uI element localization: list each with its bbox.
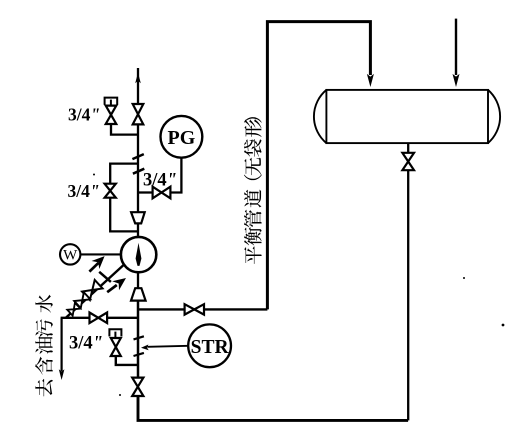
instrument PG circle (161, 116, 203, 158)
valve V2 (3/4 in vent valve) (106, 106, 117, 124)
wire: drain diagonal from pump (66, 265, 124, 318)
wire: W to pump (80, 253, 121, 255)
valve D2 on drain (74, 292, 90, 308)
wire: balance pipe up and over to vessel (267, 22, 370, 310)
label: 去含油污水 (vertical) (35, 295, 53, 397)
speck (93, 174, 95, 176)
strainer tick upper (134, 336, 144, 339)
wire: main vertical pipe top segment (137, 68, 139, 104)
crossing tick on drain line (99, 272, 111, 282)
valve V4 (3/4 in gauge valve) (153, 187, 171, 199)
strainer tick lower (134, 353, 144, 356)
valve V1 on main pipe (gate valve) (133, 104, 144, 124)
wire: main discharge pipe down (137, 301, 140, 378)
svg-text:3/4": 3/4" (143, 171, 177, 191)
wire: V4 to main pipe (138, 191, 153, 193)
wire: pipe reducer to pump (137, 223, 139, 237)
union tick lower on main pipe (133, 169, 144, 174)
speck (502, 324, 505, 327)
vessel left head (314, 90, 326, 143)
wire: PG down to valve V4 (170, 158, 181, 193)
union tick upper on main pipe (132, 154, 143, 159)
wire: main pipe to V3 branch upper (110, 164, 138, 184)
wire: main pipe between V1 and reducer (137, 124, 139, 212)
pump impeller arrow (136, 243, 142, 266)
wire: vessel outlet (407, 143, 409, 153)
svg-text:3/4": 3/4" (68, 181, 100, 201)
svg-text:3/4": 3/4" (69, 334, 103, 354)
flow arrow B (solid, NE) (107, 285, 117, 292)
expander below pump (131, 288, 146, 300)
valve V6 on balance branch (185, 304, 204, 314)
cap fitting above valve V9 (109, 329, 121, 336)
wire: V3 down and to main pipe (110, 198, 138, 232)
svg-text:W: W (63, 248, 78, 264)
vessel right head (488, 90, 500, 143)
flow arrow A (solid, NE) (89, 263, 98, 272)
valve V9 (3/4 in drain valve) (111, 338, 121, 356)
svg-text:PG: PG (168, 127, 196, 149)
speck (119, 394, 121, 396)
wire: bottom pipe with corner to right (138, 396, 408, 420)
valve V5 on oily water pipe (90, 313, 108, 324)
outlet arrow down (59, 369, 65, 380)
leader from STR to strainer (148, 346, 189, 347)
wire: outlet pipe down to bottom header (407, 170, 409, 420)
arrow into vessel (balance line) (367, 74, 374, 87)
valve V8 on vessel outlet (402, 153, 414, 170)
cap fitting above valve V2 (105, 98, 118, 105)
instrument STR circle (188, 324, 231, 367)
svg-text:3/4": 3/4" (68, 105, 100, 125)
valve V3 (3/4 in) (105, 184, 116, 198)
wire: second inlet line (455, 19, 457, 75)
arrow into vessel (inlet) (453, 74, 460, 87)
svg-text:STR: STR (191, 337, 230, 358)
wire: pump to expander (137, 272, 139, 288)
vessel shell (326, 90, 488, 143)
instrument W circle (60, 244, 80, 264)
flow arrow up on main pipe (135, 73, 141, 84)
speck (463, 277, 465, 279)
valve D3 on drain (smallest) (67, 303, 80, 316)
pump P1 circle (121, 237, 156, 272)
wire: horizontal oily water pipe (61, 317, 138, 319)
label: 平衡管道（无袋形） (vertical) (244, 117, 262, 264)
wire: V9 to main pipe (116, 356, 138, 365)
wire: drop leg down (60, 318, 62, 372)
wire: V2 to main pipe (111, 124, 138, 135)
valve D1 on drain (largest) (82, 280, 103, 300)
wire: branch to balance line (138, 308, 267, 310)
reducer above pump (131, 212, 145, 223)
valve V7 on bottom main pipe (132, 378, 143, 396)
